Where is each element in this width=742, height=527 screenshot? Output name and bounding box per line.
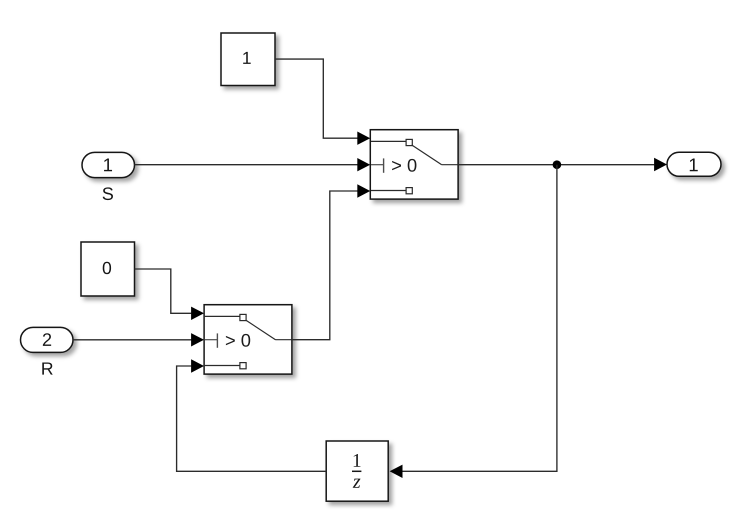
wire inport R to Switch2 input 2 — [73, 333, 204, 346]
wire Constant0 to Switch2 input 1 — [135, 269, 205, 320]
inport R (port 2) — [21, 327, 74, 352]
wire Switch1 output to outport 1 — [458, 158, 667, 171]
wire Constant1 to Switch1 input 1 — [275, 59, 370, 145]
switch block Switch2 — [204, 305, 292, 374]
junction node on output line — [553, 160, 562, 169]
constant block Constant1 value 1 — [221, 33, 275, 86]
wire junction to unit delay input — [390, 165, 557, 478]
wire Switch2 output to Switch1 input 3 — [292, 184, 370, 339]
label R — [42, 362, 52, 374]
wire inport S to Switch1 input 2 — [135, 158, 371, 171]
inport S (port 1) — [82, 152, 135, 177]
constant block Constant value 0 — [81, 242, 135, 296]
label S — [103, 187, 113, 200]
outport 1 — [667, 152, 721, 176]
unit delay block 1/z (flipped) — [326, 441, 388, 501]
switch block Switch1 — [370, 130, 458, 199]
wire unit delay output to Switch2 input 3 — [177, 359, 327, 471]
